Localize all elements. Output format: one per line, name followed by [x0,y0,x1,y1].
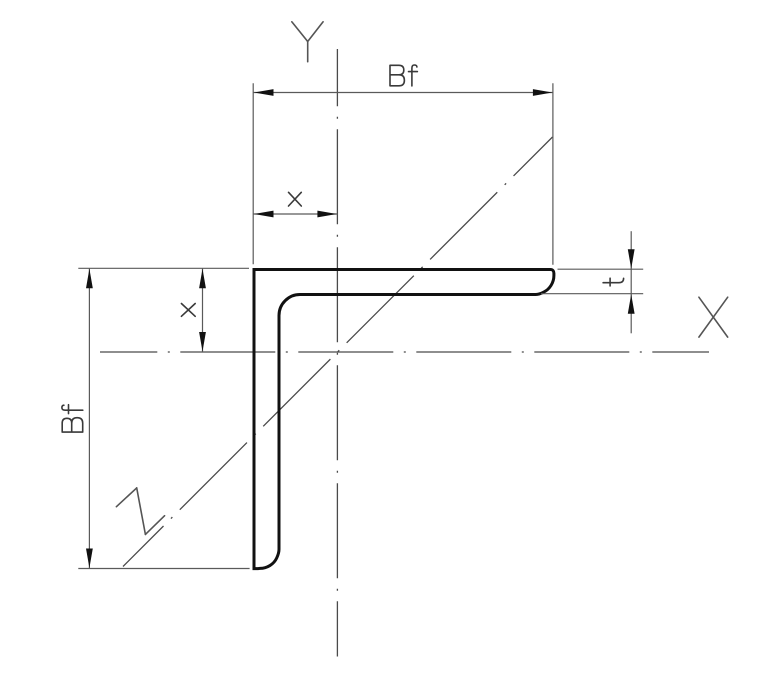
angle profile outline [254,270,554,569]
Z centerline (45 degree axis) [123,137,553,567]
dimension Bf left: label [62,405,83,432]
dimension x vertical: label [181,304,195,317]
dimension x vertical: line [202,268,204,352]
extension line E5 (top of t) [558,268,644,270]
dimension t: line [630,231,632,333]
dimension Bf left: top arrow [86,269,93,289]
axis label X [699,297,728,337]
dimension Bf top: line [254,92,553,94]
dimension Bf left: bottom arrow [86,549,93,569]
dimension t: upper arrow (pointing down) [628,249,635,269]
dimension t: lower arrow (pointing up) [628,294,635,314]
X centerline (horizontal axis) [100,351,709,353]
dimension x horizontal: right arrow [317,211,337,218]
dimension x horizontal: label [289,192,302,206]
extension line E1 (left of Bf top / x horiz) [252,83,254,264]
axis label Z [116,488,164,535]
dimension Bf left: line [88,268,90,568]
dimension Bf top: label [390,65,417,86]
dimension Bf top: right arrow [533,89,553,96]
axis label Y [292,22,323,62]
extension line E4 (bottom of Bf left) [78,568,249,570]
extension line E6 (bottom of t) [541,293,643,295]
dimension x horizontal: left arrow [254,211,274,218]
Y centerline (vertical axis) [336,49,338,657]
dimension x vertical: top arrow [199,269,206,289]
dimension Bf top: left arrow [254,89,274,96]
extension line E2 (right of Bf top) [552,83,554,264]
dimension x horizontal: line [254,213,338,215]
dimension x vertical: bottom arrow [199,332,206,352]
dimension t: label [603,278,624,286]
extension line E3 (top of Bf left / x vert) [78,267,249,269]
